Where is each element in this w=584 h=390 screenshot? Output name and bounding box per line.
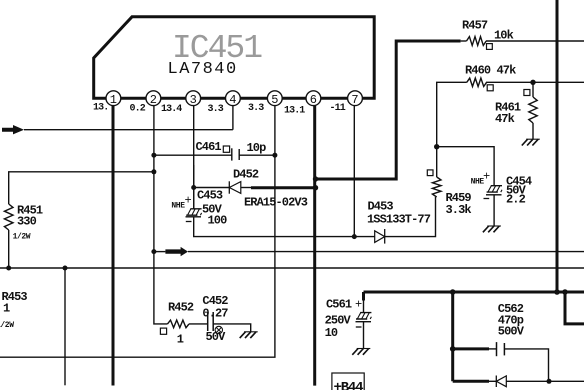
wire pin2 to arrow (154, 251, 166, 253)
svg-text:1: 1 (110, 93, 117, 107)
svg-text:1: 1 (3, 302, 10, 316)
wire C562 to diode rail (504, 349, 548, 381)
svg-text:0.2: 0.2 (130, 104, 146, 115)
svg-text:330: 330 (17, 215, 37, 229)
resistor R461 (529, 97, 537, 123)
svg-text:NHE: NHE (471, 178, 485, 187)
wire thick horizontal bus (364, 291, 584, 294)
svg-text:R460 47k: R460 47k (465, 64, 516, 78)
wire to D452 cathode (194, 187, 230, 189)
connector square at R459 (427, 170, 433, 176)
resistor R460 (467, 78, 487, 86)
wire R460 to right edge (486, 81, 584, 83)
svg-text:R457: R457 (462, 19, 488, 33)
capacitor C453 hatched plate (186, 209, 201, 215)
wire arrow to right edge (188, 251, 584, 253)
pin 3 of IC451 (186, 91, 201, 107)
junction dot R451/rail (6, 266, 11, 271)
junction dot pin2/output arrow (151, 249, 156, 254)
connector square at C461 (223, 146, 229, 152)
svg-text:50V: 50V (206, 330, 227, 344)
ground below C454 (483, 226, 501, 232)
wire down from rail to bottom (64, 268, 66, 385)
capacitor C453 straight plate (186, 216, 202, 218)
junction dot R459/R460/C454 (434, 144, 439, 149)
connector square at R460 (487, 85, 493, 91)
junction dot pin7/D453 (352, 234, 357, 239)
svg-text:ERA15-02V3: ERA15-02V3 (244, 196, 308, 210)
svg-text:C461: C461 (196, 140, 222, 154)
pin 2 of IC451 (146, 91, 161, 107)
wire D453 cathode to R459 (385, 197, 436, 237)
svg-text:7: 7 (351, 93, 358, 107)
svg-text:100: 100 (208, 214, 228, 228)
svg-text:13.: 13. (93, 103, 108, 114)
wire D452 anode thick to pin6 line (251, 186, 316, 189)
svg-text:13.1: 13.1 (284, 106, 305, 117)
svg-text:13.4: 13.4 (161, 104, 182, 115)
wire pin2 to C461 (154, 154, 232, 156)
svg-text:D453: D453 (368, 200, 394, 214)
svg-text:+: + (185, 194, 192, 208)
diode D452 (229, 181, 241, 193)
wire D452 anode thin (241, 187, 251, 189)
pin 4 of IC451 (226, 91, 241, 107)
wire R451 to bottom rail (8, 230, 10, 268)
svg-text:2: 2 (150, 93, 157, 107)
wire input to pin 4 (24, 129, 233, 131)
svg-text:3: 3 (190, 93, 197, 107)
pin 5 of IC451 (267, 91, 282, 107)
wire pin 4 down to input line (232, 106, 234, 130)
resistor R451 (4, 204, 13, 230)
junction dot R460/R461 (530, 80, 535, 85)
svg-text:2.2: 2.2 (506, 193, 526, 207)
junction dot pin6/R457 trace (313, 176, 318, 181)
diode D453 (375, 229, 385, 244)
ground below C561 (352, 349, 370, 355)
wire R452 to C452 (189, 323, 208, 325)
connector square at R452 (160, 328, 166, 334)
wire R460 junction down to R461 (532, 82, 534, 97)
wire C461 to pin5 (239, 154, 275, 156)
wire thick to C562 (453, 347, 489, 350)
svg-text:500V: 500V (498, 325, 525, 339)
wire C562 lead left thin (489, 348, 497, 350)
safety symbol circled cross at C452 (215, 326, 222, 333)
wire feedback rail across page (0, 267, 584, 269)
net label box +B44 (332, 373, 364, 390)
connector square at R461 (524, 90, 530, 96)
svg-text:1/2W: 1/2W (13, 233, 31, 242)
wire diode to right edge (506, 380, 584, 382)
wire thick bottom to diode (453, 380, 489, 383)
op-amp IC U451 LA7840 body (94, 17, 375, 98)
wire junction to C454 (437, 147, 494, 186)
junction dot bus corner (554, 289, 560, 295)
svg-text:10: 10 (325, 326, 338, 340)
svg-text:1/2W: 1/2W (0, 321, 14, 330)
wire bus corner down to C561 (363, 292, 365, 312)
junction dot bus branch (562, 289, 568, 295)
svg-text:D452: D452 (233, 168, 259, 182)
capacitor C454 straight plate (486, 194, 502, 196)
wire thick stub at bus corner (362, 292, 365, 301)
svg-text:1: 1 (177, 333, 184, 347)
capacitor C454 hatched plate (487, 186, 502, 192)
junction dot pin5/C461 (272, 153, 277, 158)
svg-text:3.3k: 3.3k (446, 203, 472, 217)
ground below C452 (240, 332, 258, 338)
capacitor C562 plates (497, 342, 505, 356)
capacitor C454 polarity minus (484, 198, 490, 200)
junction dot bus/C562 branch (450, 289, 456, 295)
capacitor C452 plates (208, 312, 214, 331)
wire pin2 to left and down to R451 (9, 172, 154, 204)
junction dot C562 tap (450, 346, 456, 352)
wire junction to R459 top (436, 147, 438, 177)
pin 6 of IC451 (306, 91, 321, 107)
junction dot pin3/D452/C453 (191, 185, 196, 190)
resistor R457 (461, 40, 467, 42)
signal arrow (mid, output) (165, 247, 188, 256)
svg-text:10k: 10k (494, 29, 514, 43)
svg-text:-11: -11 (330, 103, 346, 114)
svg-text:3.3: 3.3 (208, 104, 224, 115)
capacitor C561 straight plate (356, 321, 372, 323)
junction dot pin2/C461 (151, 153, 156, 158)
svg-text:6: 6 (310, 93, 317, 107)
svg-text:+: + (483, 170, 490, 184)
resistor R452 (168, 320, 190, 328)
resistor R459 (432, 177, 441, 197)
capacitor C561 polarity minus (356, 326, 362, 328)
wire thick bus down to output stub (565, 292, 584, 324)
svg-text:5: 5 (271, 93, 278, 107)
wire junction up to R460 (437, 82, 467, 146)
wire pin 2 down and to R452 (154, 106, 168, 324)
connector square at R457 (487, 44, 493, 50)
pin 7 of IC451 (348, 91, 363, 107)
capacitor C461 plates (232, 148, 239, 160)
wire thick vertical bus right (556, 0, 559, 292)
capacitor C561 hatched plate (356, 313, 371, 319)
svg-text:C561: C561 (326, 298, 352, 312)
wire pin 5 down and left along box bottom (0, 106, 275, 358)
wire C453 bottom down to D453 rail (194, 217, 375, 237)
svg-text:LA7840: LA7840 (168, 60, 238, 79)
svg-text:4: 4 (229, 93, 236, 107)
svg-text:+: + (355, 298, 362, 312)
svg-text:NHE: NHE (171, 202, 185, 211)
wire C452 to ground (213, 324, 251, 332)
wire C561 to ground (363, 322, 365, 349)
svg-text:C453: C453 (197, 189, 223, 203)
capacitor C453 polarity minus (186, 221, 192, 223)
wire diode lead (489, 380, 496, 382)
wire pin 3 down to C453 (193, 106, 195, 209)
svg-text:R452: R452 (168, 301, 194, 315)
junction dot diode/C562 (547, 379, 552, 384)
svg-text:3.3: 3.3 (248, 103, 264, 114)
wire pin3 junction segment (193, 165, 195, 209)
wire pin 7 down to D453 (353, 106, 355, 237)
pin 1 of IC451 (106, 91, 121, 107)
junction dot D452/pin6 line (313, 185, 318, 190)
svg-text:+B44: +B44 (334, 380, 364, 390)
wire thick down from bus (451, 292, 454, 381)
svg-text:47k: 47k (495, 112, 515, 126)
svg-text:10p: 10p (247, 141, 267, 155)
wire R457 to right edge (486, 40, 584, 42)
wire pin 6 to bottom (thick) (313, 106, 316, 386)
junction dot rail/down wire (63, 266, 68, 271)
junction dot pin2 line (151, 169, 156, 174)
svg-text:1SS133T-77: 1SS133T-77 (367, 213, 431, 227)
svg-text:0.27: 0.27 (202, 307, 228, 321)
wire C454 to ground (493, 195, 495, 226)
diode D561 (496, 376, 506, 388)
signal input arrow (left, to pin 4) (2, 125, 24, 134)
wire thick pin6 to R457 (316, 41, 461, 179)
wire R461 to ground (532, 123, 534, 139)
ground below R461 (522, 139, 540, 145)
wire pin 1 to bottom (thick) (112, 106, 115, 386)
